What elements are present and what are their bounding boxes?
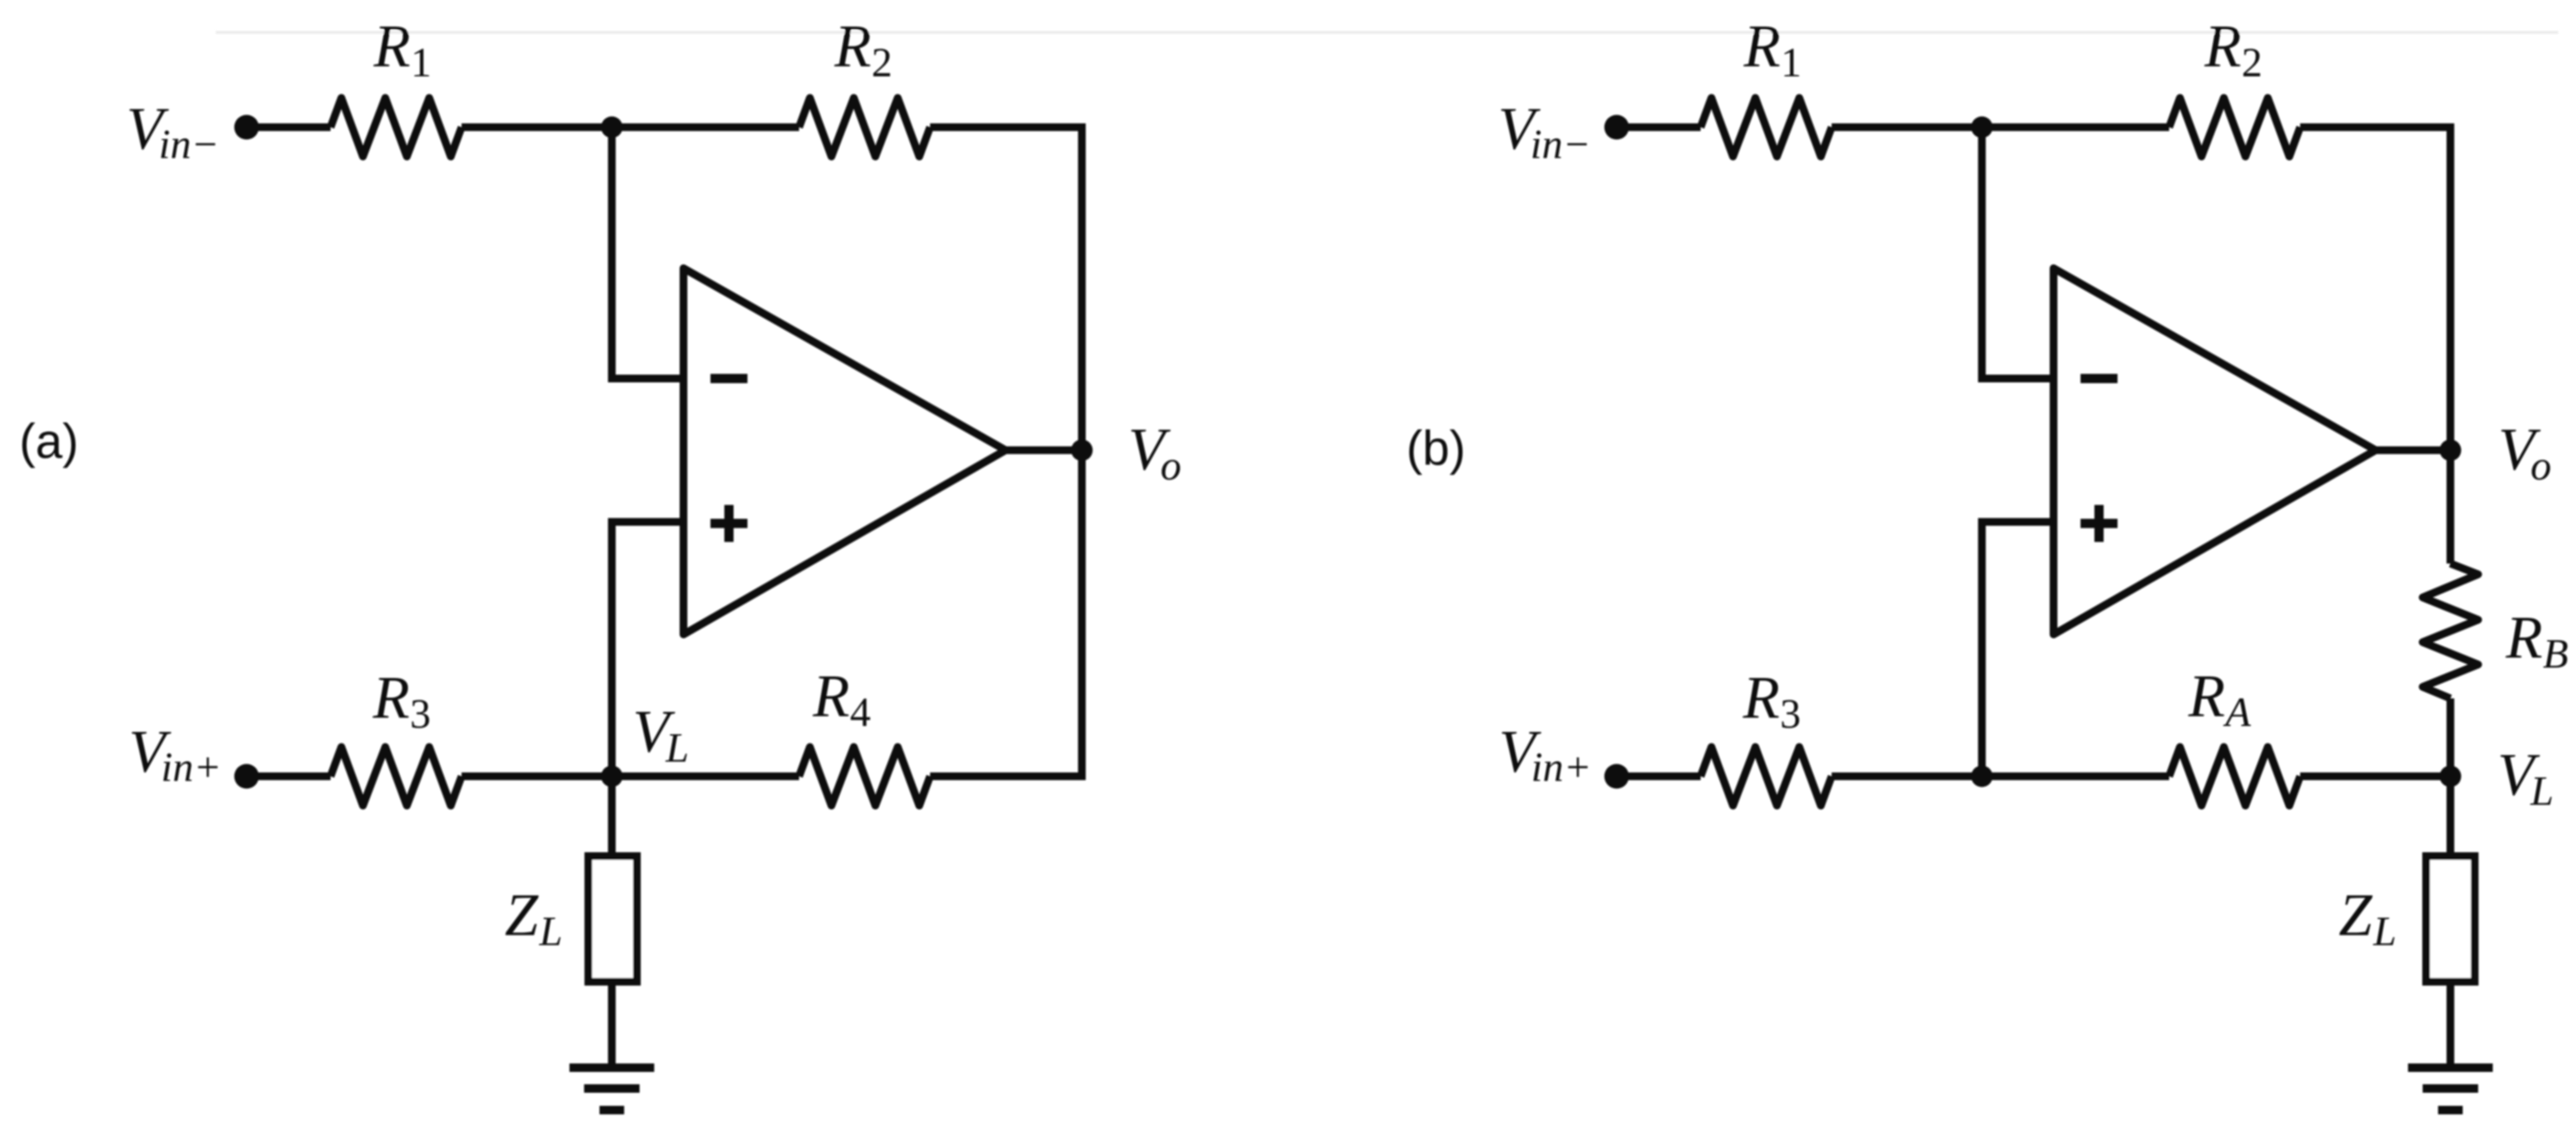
label R3 (b) [1742,664,1801,737]
svg-text:R: R [812,662,850,729]
svg-text:L: L [665,725,689,771]
svg-text:A: A [2223,689,2252,735]
op-amp U2 (b) [2054,268,2376,634]
faint top border artifact [216,31,2558,34]
label R3 (a) [372,664,431,737]
wire Vin+ to R3 (b) [1617,772,1701,780]
plus symbol op-amp (b) [2081,505,2118,542]
label Vin- (a) [126,95,219,167]
label R4 (a) [812,662,871,735]
label VL (a) [633,698,689,771]
wire R3 to RA through + node (b) [1832,772,2169,780]
svg-text:(a): (a) [19,415,79,469]
op-amp U1 (a) [683,268,1006,634]
svg-text:R: R [372,664,410,731]
wire inverting input (a) [612,127,683,379]
svg-text:3: 3 [410,691,431,737]
label R2 (b) [2204,12,2262,86]
label ZL (a) [505,881,563,954]
svg-text:3: 3 [1780,691,1801,737]
wire Vin- to R1 (a) [247,123,331,131]
wire inverting input (b) [1982,127,2054,379]
svg-text:in−: in− [159,121,219,167]
node Vo (b) [2440,439,2461,461]
terminal Vin+ (b) [1604,764,1629,789]
svg-text:in+: in+ [1531,744,1591,790]
label VL (b) [2497,741,2554,814]
wire non-inverting input (b) [1982,522,2054,776]
label R2 (a) [834,12,892,86]
svg-text:o: o [1160,442,1181,489]
wire RA to VL (b) [2300,772,2450,780]
svg-text:L: L [2373,908,2396,954]
label ZL (b) [2339,881,2396,954]
svg-text:Z: Z [2339,881,2373,948]
load ZL (a) [589,856,637,982]
node junction (b) bottom [1971,765,1993,787]
svg-text:o: o [2531,442,2551,489]
wire VL to ZL (a) [608,776,616,853]
node Vo (a) [1071,439,1093,461]
resistor RA (b) [2169,747,2300,806]
svg-text:R: R [2204,12,2242,79]
label Vin- (b) [1498,95,1590,167]
wire Vin+ to R3 (a) [247,772,331,780]
resistor R3 (b) [1701,747,1832,806]
minus symbol op-amp (a) [710,374,747,383]
wire ZL to ground (b) [2447,985,2454,1068]
svg-text:R: R [373,12,411,79]
terminal Vin+ (a) [234,764,259,789]
node VL (b) [2440,765,2461,787]
resistor R4 (a) [799,747,930,806]
wire Vin- to R1 (b) [1617,123,1701,131]
node junction (a) top [601,116,623,138]
node VL (a) [601,765,623,787]
svg-text:in−: in− [1530,121,1590,167]
resistor R1 (b) [1701,98,1832,156]
label RA (b) [2188,662,2252,735]
label Vo (b) [2498,416,2551,489]
svg-text:2: 2 [2242,39,2262,86]
label R1 (a) [373,12,432,86]
svg-text:R: R [1743,12,1781,79]
svg-text:L: L [539,908,563,954]
ground (b) [2408,1068,2493,1110]
ground (a) [569,1068,654,1110]
terminal Vin- (b) [1604,115,1629,140]
resistor R1 (a) [331,98,462,156]
svg-text:1: 1 [411,39,432,86]
svg-text:B: B [2543,631,2568,677]
wire R2 to right vertical down to RB (b) [2300,127,2450,564]
label Vo (a) [1128,416,1181,489]
svg-text:R: R [2505,604,2543,671]
resistor RB (b) [2423,564,2478,698]
wire R2 to right vertical down to R4 (a) [930,127,1082,776]
wire op-amp output (a) [1002,446,1082,454]
wire non-inverting input (a) [612,522,683,776]
label RB (b) [2505,604,2568,677]
load ZL (b) [2427,856,2475,982]
wire RB to VL to ZL (b) [2447,698,2454,853]
wire R1 to R2 through node (b) [1832,123,2169,131]
label Vin+ (a) [129,718,221,790]
resistor R2 (a) [799,98,930,156]
svg-text:2: 2 [872,39,892,86]
wire op-amp output (b) [2372,446,2450,454]
wire ZL to ground (a) [608,985,616,1068]
svg-text:(b): (b) [1406,422,1466,476]
minus symbol op-amp (b) [2081,374,2118,383]
resistor R3 (a) [331,747,462,806]
label Vin+ (b) [1499,718,1591,790]
label R1 (b) [1743,12,1802,86]
svg-text:4: 4 [850,689,871,735]
terminal Vin- (a) [234,115,259,140]
node junction (b) top [1971,116,1993,138]
plus symbol op-amp (a) [710,505,747,542]
wire R3 to R4 through node VL (a) [462,772,799,780]
svg-text:Z: Z [505,881,539,948]
svg-text:in+: in+ [161,744,221,790]
svg-text:R: R [2188,662,2225,729]
svg-text:1: 1 [1781,39,1802,86]
wire R1 to R2 through node (a) [462,123,799,131]
resistor R2 (b) [2169,98,2300,156]
svg-text:L: L [2530,768,2554,814]
svg-text:R: R [1742,664,1780,731]
svg-text:R: R [834,12,872,79]
